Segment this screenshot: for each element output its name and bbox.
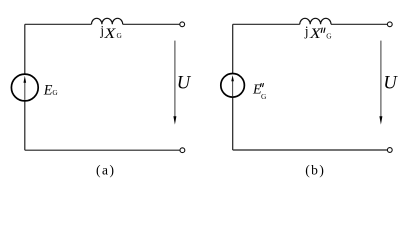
inductor jX''_G (b)	[300, 18, 331, 24]
wire: (b) left vertical upper segment	[232, 24, 234, 73]
source arrow (a)	[24, 82, 26, 100]
svg-text:G: G	[261, 92, 267, 101]
svg-text:U: U	[383, 74, 398, 94]
wire: (b) top-left horizontal segment	[233, 23, 300, 25]
wire: (a) left vertical lower segment	[24, 102, 26, 151]
voltage source E''_G (b)	[221, 74, 245, 98]
svg-text:j: j	[99, 23, 104, 38]
inductor jX_G (a)	[92, 18, 123, 24]
wire: (a) top-left horizontal segment	[25, 23, 92, 25]
wire: (b) bottom horizontal segment	[233, 149, 388, 151]
voltage arrow U (b)	[380, 41, 382, 118]
svg-text:j: j	[304, 24, 309, 39]
svg-text:(a): (a)	[96, 162, 115, 177]
wire: (a) left vertical upper segment	[24, 24, 26, 73]
wire: (a) bottom horizontal segment	[25, 149, 180, 151]
wire: (b) top-right horizontal segment	[331, 23, 387, 25]
terminal: (a) bottom-right open circle	[180, 148, 185, 153]
voltage source E_G (a)	[11, 74, 38, 101]
voltage arrow U (a)	[174, 41, 176, 118]
svg-text:G: G	[52, 88, 58, 97]
svg-text:X: X	[309, 26, 322, 42]
svg-text:E: E	[43, 83, 53, 99]
wire: (b) left vertical lower segment	[232, 98, 234, 150]
terminal: (b) bottom-right open circle	[387, 148, 392, 153]
terminal: (b) top-right open circle	[387, 22, 392, 27]
wire: (a) top-right horizontal segment	[123, 23, 180, 25]
source arrow (b)	[232, 81, 234, 97]
svg-text:X: X	[103, 26, 116, 42]
svg-text:G: G	[117, 31, 123, 40]
svg-text:U: U	[177, 74, 192, 94]
terminal: (a) top-right open circle	[180, 22, 185, 27]
svg-text:(b): (b)	[305, 162, 325, 177]
svg-text:G: G	[326, 32, 332, 41]
